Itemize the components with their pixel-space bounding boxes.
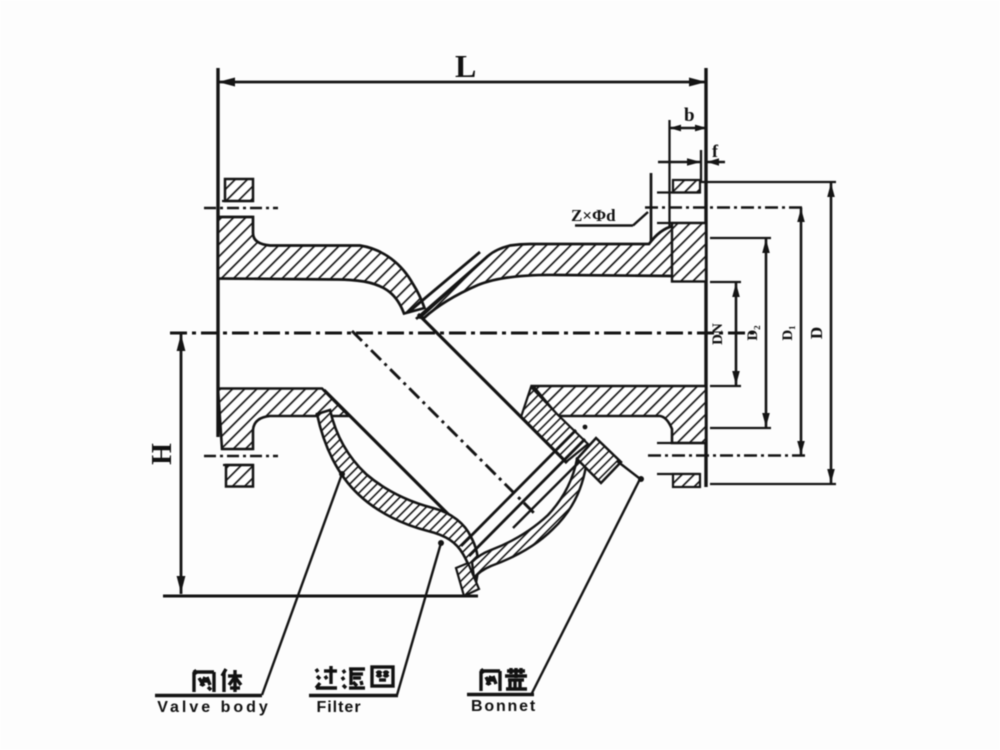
svg-text:f: f [712,141,719,161]
hatched wedge right of crossing [420,226,673,318]
chinese label: valve body (fa ti) [194,669,242,692]
dimension f [658,161,701,164]
label underline bonnet [467,693,534,697]
valve body bowl wall band [317,410,479,591]
svg-text:D₂: D₂ [745,325,761,341]
D extension lines [701,181,836,183]
dimension L line [218,81,706,84]
bonnet tail line [617,461,639,478]
bonnet joint face lines [461,430,576,546]
dimension D2 line [765,238,768,428]
label underline valve body [155,694,262,698]
leader line filter [397,543,441,695]
slot line A at chamber crossing [408,252,480,313]
dimension D line [830,182,833,484]
chinese label: filter screen (guo lv wang) [316,666,393,688]
bowl bottom drain nub [456,563,479,596]
H bottom extension line [163,595,478,598]
left flange bottom bolt hole edges [222,448,253,450]
label underline filter [309,694,398,698]
left flange bottom rim block [226,465,253,487]
chinese label: bonnet (fa gai) [481,668,527,691]
bolt circle dash-dot top-left flange [204,207,278,209]
chamber lower wall line [324,390,466,532]
Z x Phi d callout leader [575,224,633,226]
svg-text:Z×Φd: Z×Φd [571,206,616,225]
slot line B at chamber crossing [416,256,488,319]
svg-text:b: b [684,105,695,126]
dimension H line [180,333,183,594]
filter screen dome band [472,459,586,578]
right flange top block [672,223,706,282]
right flange top bolt hole edges [657,191,700,193]
dimension b line [670,127,708,130]
svg-text:H: H [147,443,178,465]
chamber upper wall line [418,314,567,463]
centerline main pipe axis [170,332,757,335]
leader line valve body [262,474,342,695]
svg-text:Valve body: Valve body [157,699,271,716]
dimension D1 line [800,208,803,456]
lower-left pipe wall + left flange bottom [218,389,349,450]
svg-text:D: D [807,327,826,339]
svg-text:DN: DN [710,323,726,345]
leader line bonnet [531,479,640,695]
right flange top rim block [673,180,700,193]
svg-text:L: L [455,48,476,84]
right flange bottom bolt hole edges [657,442,706,444]
svg-text:Bonnet: Bonnet [471,698,537,715]
bolt circle dash-dot top-right flange / D1 extension [645,206,806,208]
dimension L arrows [218,78,235,87]
valve body: left flange + upper-left pipe wall [218,217,425,314]
DN extension lines [710,281,741,283]
D2 extension lines [710,237,771,239]
svg-text:D₁: D₁ [780,325,796,340]
centerline strainer chamber axis [352,331,537,516]
right flange bottom rim block [673,474,700,487]
b extension line [668,120,670,228]
right flange face line / L extension [704,68,707,487]
lower-right pipe wall + right flange bottom block [533,386,706,443]
bolt circle dash-dot bottom-left flange [204,455,278,457]
bonnet boss wedge on lower-right wall [521,387,588,462]
dimension DN line [735,282,738,386]
bolt circle dash-dot bottom-right flange / D1 extension [648,454,806,456]
bonnet cap [577,438,621,483]
left flange face line / L extension [216,68,219,437]
svg-text:Filter: Filter [316,699,361,716]
left flange top rim block [225,179,253,201]
left flange top bolt hole edges [222,200,253,202]
